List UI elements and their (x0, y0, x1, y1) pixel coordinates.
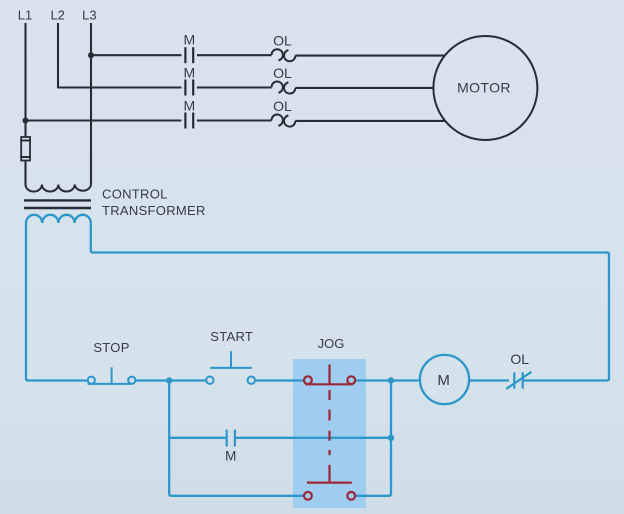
transformer T1 secondary winding (blue) (26, 215, 91, 223)
contact M row 2 (185, 80, 193, 96)
wire row 3 right to motor (295, 120, 445, 122)
junction dot L1 / row 3 (23, 118, 29, 124)
wire STOP to START (136, 379, 205, 381)
contact M row 3 (185, 113, 193, 129)
pushbutton JOG double-circuit (red) (304, 365, 355, 500)
fuse F1 on L1 (20, 137, 31, 161)
svg-text:M: M (183, 31, 195, 47)
wire row 2 mid (197, 86, 272, 88)
svg-text:CONTROL: CONTROL (102, 187, 168, 202)
svg-text:JOG: JOG (318, 336, 345, 351)
wire secondary right to top rail and right rail down (91, 223, 609, 381)
svg-text:OL: OL (273, 98, 292, 114)
JOG bottom contact stem (328, 465, 330, 483)
junction dot middle branch / right branch (388, 435, 394, 441)
svg-text:L2: L2 (50, 8, 64, 23)
wire row 1 left (91, 54, 182, 56)
svg-text:OL: OL (510, 351, 529, 367)
JOG top contact stem (328, 365, 330, 385)
svg-text:M: M (183, 65, 195, 81)
wire secondary left down to control rung (26, 223, 87, 381)
JOG top contact terminals (304, 376, 312, 384)
wire L3 vertical (90, 23, 92, 185)
svg-text:OL: OL (273, 33, 292, 49)
svg-text:M: M (225, 449, 236, 464)
overload heater OL row 1 (272, 49, 296, 61)
overload heater OL row 3 (272, 114, 296, 126)
wire bottom branch right (356, 381, 391, 496)
wire middle branch left (169, 437, 225, 439)
svg-text:M: M (183, 98, 195, 114)
wire row 3 mid (197, 119, 272, 121)
wire L1 fuse to transformer primary (24, 161, 26, 185)
svg-text:MOTOR: MOTOR (457, 80, 511, 96)
transformer T1 primary winding (26, 185, 92, 192)
pushbutton STOP (NC) (88, 367, 136, 384)
overload contact OL (NC) (506, 372, 531, 389)
wire row 3 left (26, 119, 182, 121)
junction dot STOP-START branch (166, 377, 172, 383)
wire row 1 mid (197, 54, 272, 56)
JOG bottom contact terminals (304, 492, 312, 500)
highlight box around JOG pushbutton (293, 359, 366, 508)
wire branch left vertical (169, 381, 171, 496)
contact M row 1 (185, 47, 193, 63)
motor circle (433, 36, 537, 140)
wire L2 vertical and row 2 left branch (58, 23, 182, 88)
overload heater OL row 2 (272, 81, 296, 93)
svg-text:OL: OL (273, 65, 292, 81)
wire middle branch right (236, 437, 391, 439)
contact M auxiliary (NO) (227, 430, 235, 447)
wire L1 vertical (24, 23, 26, 137)
JOG mechanical linkage dashed (328, 390, 330, 456)
JOG top contact bar (305, 383, 352, 385)
wire bottom branch left (171, 495, 303, 497)
svg-text:M: M (437, 372, 450, 389)
coil M (420, 355, 469, 404)
transformer T1 core bars (24, 199, 91, 201)
JOG bottom contact bar (307, 482, 352, 484)
wire START to JOG (256, 379, 303, 381)
wire row 2 right to motor (295, 87, 433, 89)
svg-text:TRANSFORMER: TRANSFORMER (102, 203, 206, 218)
junction dot L3 / row 1 (88, 52, 94, 58)
wire coil M to OL contact (469, 379, 509, 381)
wire JOG to coil M (356, 379, 420, 381)
svg-text:START: START (210, 329, 253, 344)
svg-text:L3: L3 (82, 8, 96, 23)
svg-text:STOP: STOP (93, 340, 129, 355)
junction dot rung / right branch (388, 377, 394, 383)
svg-text:L1: L1 (18, 8, 32, 23)
wire row 1 right to motor (295, 55, 445, 57)
pushbutton START (NO) (206, 351, 255, 384)
